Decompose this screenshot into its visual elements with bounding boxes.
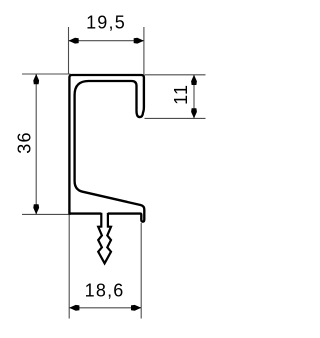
- dimension 11 dimension line: [193, 75, 195, 119]
- svg-text:18,6: 18,6: [85, 281, 125, 301]
- dimension 19,5 arrow right: [134, 38, 144, 44]
- dimension 18,6 extension line left: [68, 215, 70, 319]
- dimension 11 arrow bottom: [191, 108, 197, 118]
- dimension 36 extension line bottom: [22, 213, 71, 215]
- svg-text:11: 11: [171, 84, 191, 105]
- dimension 18,6 arrow left: [69, 305, 79, 311]
- snap-in barbed leg (fir-tree anchor with arrow tip): [98, 213, 111, 263]
- dimension 18,6 extension line right: [140, 223, 142, 319]
- svg-text:36: 36: [14, 131, 34, 153]
- dimension 36 arrow top: [33, 74, 39, 84]
- dimension 18,6 dimension line: [69, 307, 141, 309]
- dimension 18,6 arrow right: [131, 305, 141, 311]
- dimension 36 arrow bottom: [33, 204, 39, 214]
- dimension 36 extension line top: [22, 73, 71, 75]
- svg-text:19,5: 19,5: [86, 13, 126, 33]
- dimension 19,5 arrow left: [69, 38, 79, 44]
- dimension 11 extension line bottom: [145, 117, 206, 119]
- dimension 19,5 dimension line: [69, 40, 144, 42]
- dimension 11 extension line top: [145, 74, 206, 76]
- dimension 36 dimension line: [35, 74, 37, 214]
- dimension 19,5 extension line right: [143, 27, 145, 74]
- dimension 19,5 extension line left: [68, 27, 70, 74]
- profile outline (aluminum extrusion cross-section): [69, 75, 144, 222]
- dimension 11 arrow top: [191, 75, 197, 85]
